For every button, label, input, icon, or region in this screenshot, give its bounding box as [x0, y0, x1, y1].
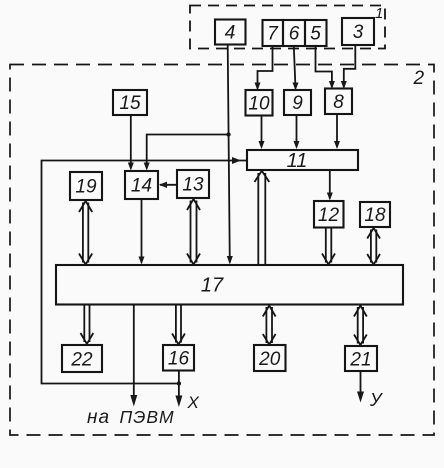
svg-text:наПЭВМ: наПЭВМ — [87, 407, 175, 428]
wire 10 to 11 — [259, 116, 265, 150]
block 15 — [113, 90, 147, 115]
bus 17 to 11 — [255, 171, 270, 265]
dashed frame 1 — [190, 6, 385, 49]
wire 8 to 11 — [334, 114, 340, 149]
wire 15 to 14 — [128, 115, 134, 171]
svg-text:2: 2 — [413, 68, 425, 89]
block 20 — [254, 345, 286, 371]
wire 14 to 17 — [139, 199, 145, 265]
wire branch 4 to 14 — [144, 135, 229, 171]
junction on feedback wire — [177, 381, 181, 385]
wire 3 to 8 — [341, 45, 356, 89]
bus 18 to 17 — [367, 228, 380, 265]
svg-text:7: 7 — [267, 24, 279, 45]
svg-text:13: 13 — [182, 175, 204, 196]
wire 6 to 9 — [293, 46, 299, 91]
svg-text:8: 8 — [333, 92, 344, 113]
wire 7 to 10 — [255, 46, 273, 91]
bus 12 to 17 — [322, 228, 335, 265]
svg-text:9: 9 — [292, 93, 303, 114]
wire 21 to Y output — [357, 371, 364, 403]
wire 17 to PC output — [130, 305, 137, 407]
svg-text:10: 10 — [248, 94, 270, 115]
wire 16 to X output — [175, 371, 182, 408]
wire 5 to 8 — [316, 46, 335, 89]
bus 17 to 16 — [172, 305, 185, 345]
block 22 — [62, 345, 102, 372]
svg-text:17: 17 — [201, 275, 224, 297]
bus 17 to 20 — [263, 306, 276, 345]
svg-text:21: 21 — [349, 350, 371, 371]
block 5 — [305, 20, 327, 46]
block 21 — [345, 346, 377, 371]
wire 11 to 12 — [327, 170, 333, 201]
block 14 — [125, 171, 158, 199]
svg-text:12: 12 — [318, 205, 340, 226]
svg-text:5: 5 — [310, 24, 321, 45]
svg-text:16: 16 — [168, 349, 190, 370]
svg-text:У: У — [369, 390, 383, 410]
block 12 — [314, 201, 344, 228]
block 10 — [246, 90, 273, 116]
svg-text:14: 14 — [131, 176, 152, 197]
wire 13 to 14 — [159, 182, 177, 188]
label X — [187, 393, 200, 412]
wire 9 to 11 — [294, 115, 300, 149]
svg-text:4: 4 — [225, 23, 236, 44]
wire 4 to 17 — [227, 45, 233, 265]
label 1 — [375, 5, 383, 22]
bus 17 to 21 — [354, 306, 367, 346]
block 3 — [342, 18, 374, 45]
svg-text:6: 6 — [289, 24, 300, 45]
svg-text:1: 1 — [375, 5, 383, 22]
block 16 — [163, 345, 194, 371]
block 13 — [177, 170, 209, 198]
block 11 — [247, 150, 358, 172]
junction on wire 4 — [226, 132, 230, 136]
svg-text:22: 22 — [70, 350, 93, 371]
label na PEVM — [87, 407, 175, 428]
block 8 — [325, 89, 352, 115]
dashed frame 2 — [10, 65, 434, 436]
label 2 — [413, 68, 425, 89]
svg-text:15: 15 — [119, 93, 141, 114]
block 7 — [263, 20, 284, 46]
svg-text:X: X — [187, 393, 200, 412]
label Y — [369, 390, 383, 410]
block 18 — [360, 202, 390, 227]
svg-text:18: 18 — [364, 205, 386, 226]
bus 17 to 22 — [81, 305, 94, 345]
bus 19 to 17 — [79, 201, 92, 265]
block 9 — [284, 90, 311, 115]
svg-text:20: 20 — [258, 349, 281, 370]
block 17 — [56, 265, 403, 305]
block 4 — [215, 20, 246, 45]
feedback wire 16 to 11 — [42, 157, 247, 384]
block 19 — [70, 172, 102, 200]
svg-text:3: 3 — [353, 22, 364, 43]
svg-text:11: 11 — [287, 150, 308, 172]
block 6 — [283, 20, 305, 46]
svg-text:19: 19 — [75, 177, 97, 198]
bus 13 to 17 — [187, 199, 200, 265]
